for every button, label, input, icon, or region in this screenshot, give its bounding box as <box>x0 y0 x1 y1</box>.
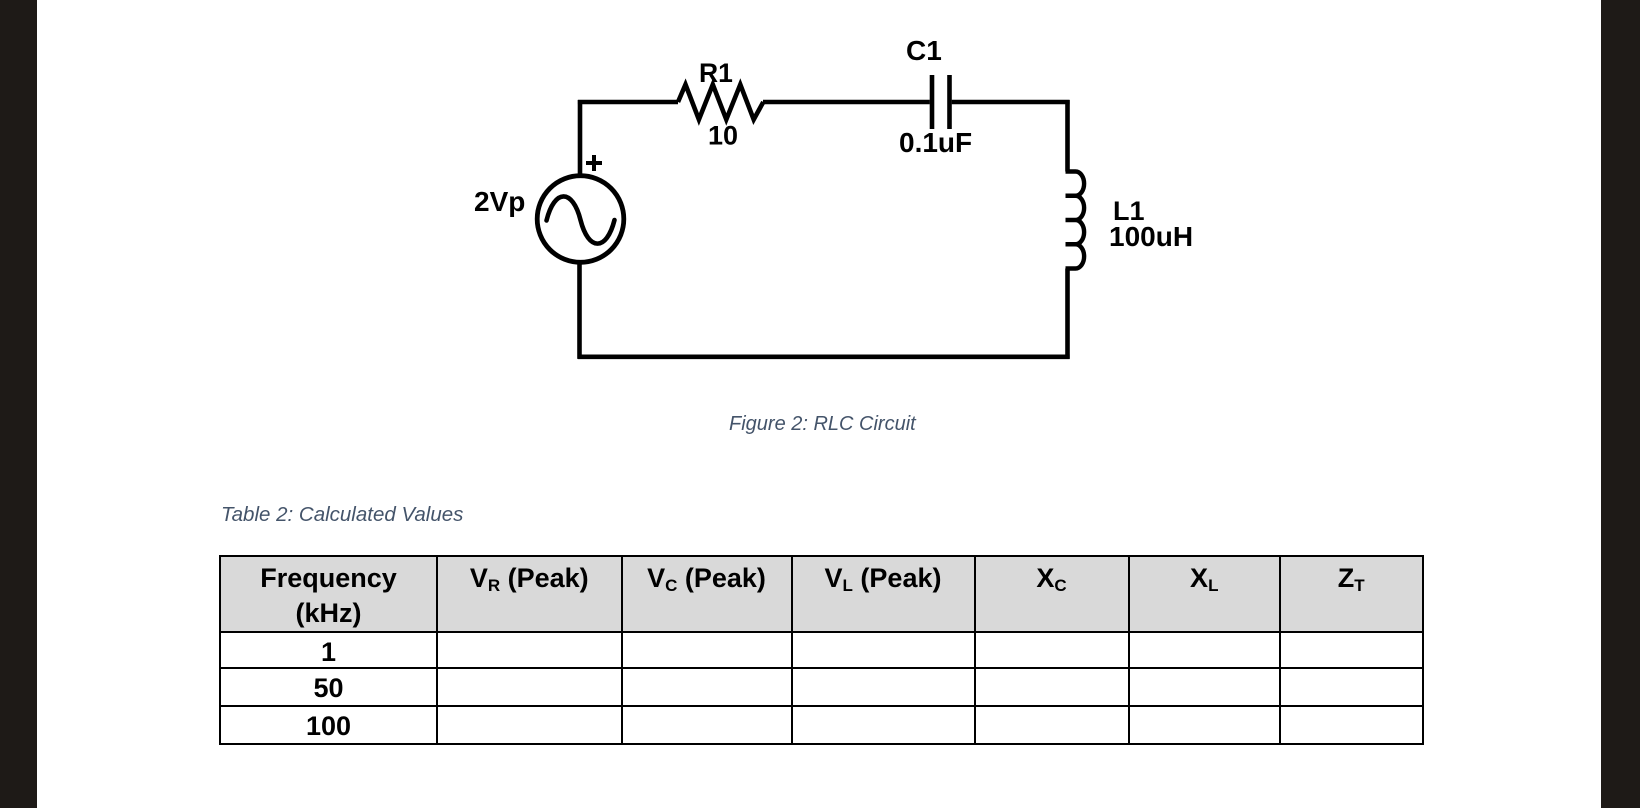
wire: top-left vertical segment from top rail down to source + terminal <box>578 100 583 174</box>
wire: top rail right segment (capacitor to top-right corner) <box>952 100 1070 105</box>
wire: right vertical upper segment (corner to inductor) <box>1065 100 1070 172</box>
svg-text:10: 10 <box>708 121 738 151</box>
capacitor C1 right plate <box>947 75 952 129</box>
wire: top rail middle segment (resistor to capacitor) <box>763 100 930 105</box>
wire: left vertical lower segment (source to bottom rail) <box>577 262 582 359</box>
svg-text:2Vp: 2Vp <box>474 186 525 217</box>
capacitor C1 left plate <box>930 75 935 129</box>
inductor L1 (four coil arcs with stubs) <box>1066 172 1085 269</box>
wire: bottom rail <box>578 354 1070 359</box>
svg-text:C1: C1 <box>906 35 942 66</box>
plus polarity mark <box>586 155 602 171</box>
wire: right vertical lower segment (inductor to bottom rail) <box>1065 269 1070 359</box>
wire: top rail left segment (source corner to resistor) <box>578 100 678 105</box>
sine wave inside source <box>547 196 615 243</box>
left black border bar <box>0 0 37 808</box>
resistor R1 (zigzag body) <box>678 85 763 120</box>
caption Figure 2: RLC Circuit <box>729 413 929 436</box>
AC voltage source V1 circle <box>537 176 624 263</box>
svg-text:0.1uF: 0.1uF <box>899 127 972 158</box>
table 2 calculated values <box>219 555 1424 745</box>
right black border bar <box>1601 0 1640 808</box>
svg-text:R1: R1 <box>699 58 733 88</box>
svg-text:100uH: 100uH <box>1109 221 1193 252</box>
caption Table 2: Calculated Values <box>221 503 463 527</box>
